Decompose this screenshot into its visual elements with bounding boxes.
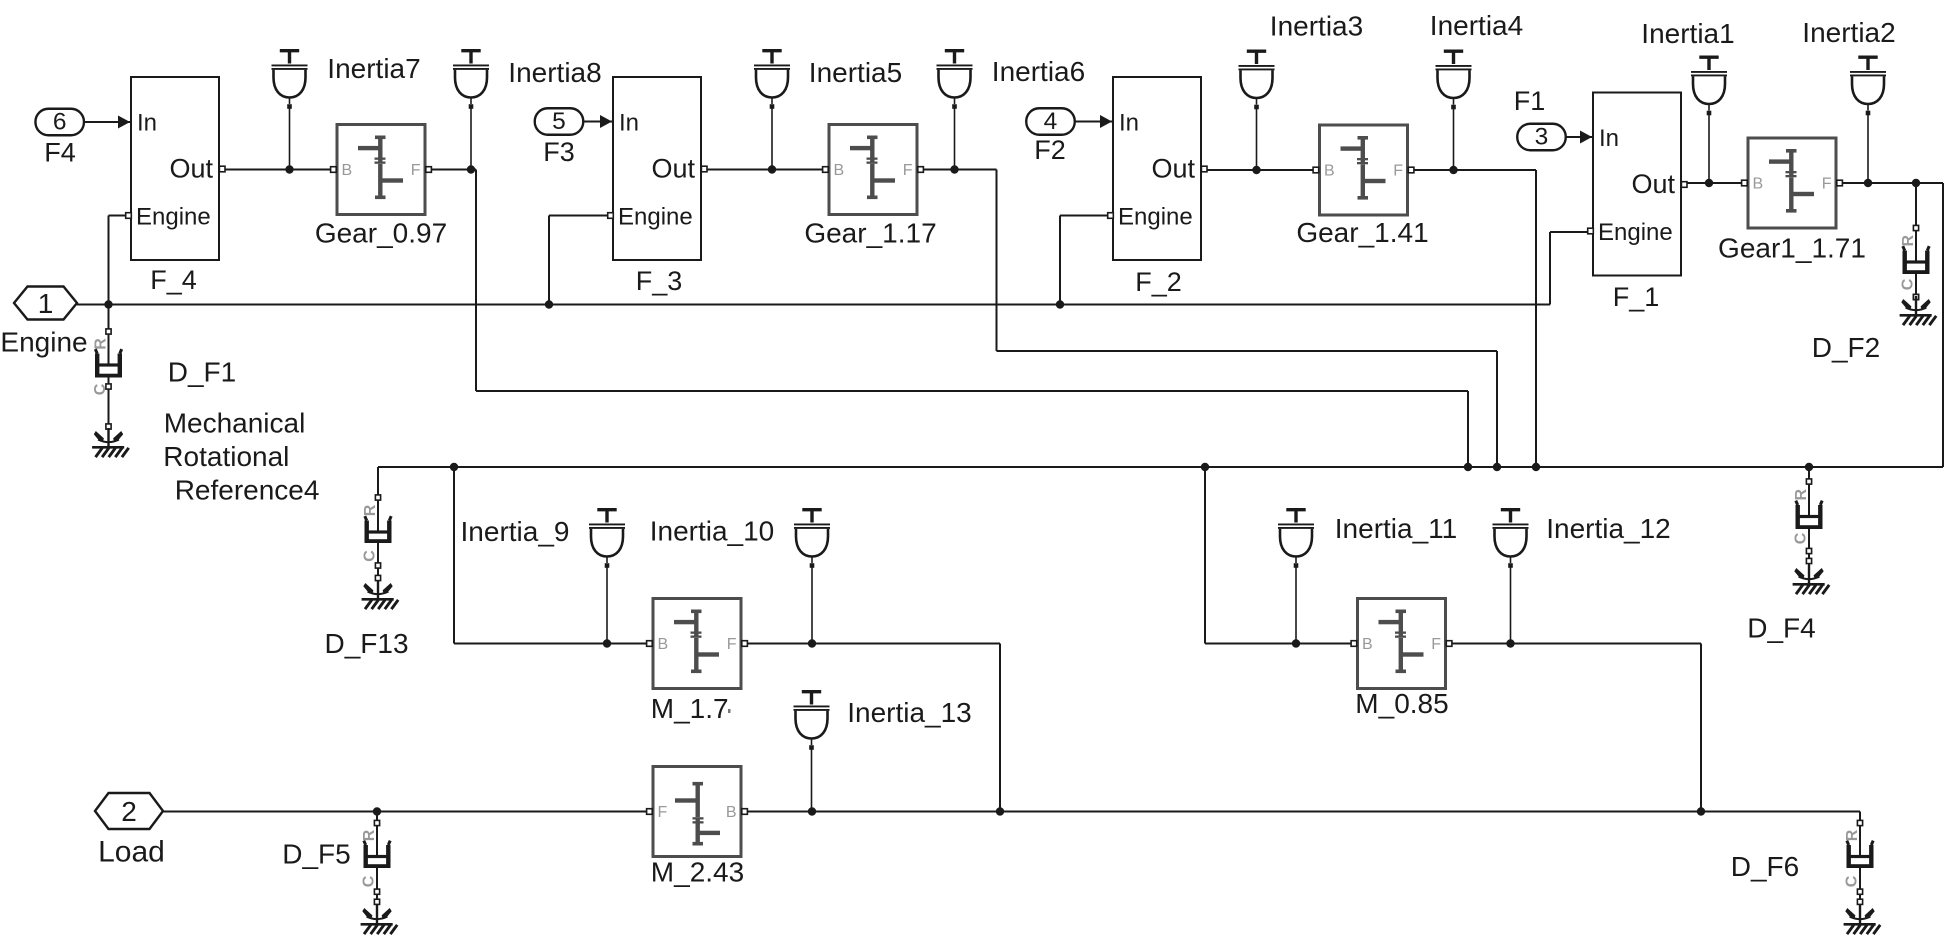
svg-text:B: B: [834, 162, 845, 179]
svg-text:B: B: [726, 804, 737, 821]
svg-text:C: C: [92, 383, 109, 395]
svg-text:Inertia8: Inertia8: [508, 57, 601, 88]
svg-text:R: R: [1900, 235, 1917, 247]
svg-text:Out: Out: [1631, 169, 1675, 199]
svg-text:F_3: F_3: [636, 266, 683, 296]
svg-text:Inertia6: Inertia6: [992, 56, 1085, 87]
svg-text:F: F: [411, 162, 421, 179]
svg-text:D_F2: D_F2: [1812, 332, 1880, 363]
svg-text:Gear1_1.71: Gear1_1.71: [1718, 233, 1866, 264]
svg-text:C: C: [1793, 532, 1810, 544]
svg-text:M_1.7: M_1.7: [651, 693, 729, 724]
svg-text:Inertia2: Inertia2: [1802, 17, 1895, 48]
svg-text:D_F4: D_F4: [1747, 613, 1815, 644]
svg-text:Inertia_12: Inertia_12: [1546, 513, 1671, 544]
svg-text:Gear_0.97: Gear_0.97: [315, 218, 447, 249]
svg-text:Load: Load: [98, 836, 165, 869]
svg-text:Mechanical: Mechanical: [164, 407, 306, 438]
svg-text:F_2: F_2: [1135, 267, 1182, 297]
svg-text:M_0.85: M_0.85: [1355, 688, 1448, 719]
svg-text:F: F: [1822, 176, 1832, 193]
svg-text:B: B: [658, 636, 669, 653]
svg-text:In: In: [1119, 110, 1139, 137]
svg-text:Inertia_13: Inertia_13: [847, 697, 972, 728]
svg-text:Inertia_9: Inertia_9: [461, 516, 570, 547]
svg-text:Engine: Engine: [136, 204, 211, 231]
svg-text:D_F6: D_F6: [1731, 851, 1799, 882]
svg-text:F_1: F_1: [1613, 282, 1660, 312]
svg-text:1: 1: [38, 288, 54, 319]
svg-text:F: F: [727, 636, 737, 653]
svg-text:C: C: [1844, 875, 1861, 887]
svg-text:B: B: [1753, 176, 1764, 193]
svg-text:F: F: [1393, 163, 1403, 180]
svg-text:Engine: Engine: [1598, 219, 1673, 246]
svg-text:Inertia1: Inertia1: [1641, 18, 1734, 49]
svg-text:Inertia4: Inertia4: [1430, 10, 1523, 41]
svg-text:4: 4: [1044, 108, 1058, 135]
svg-text:In: In: [619, 110, 639, 137]
svg-text:R: R: [362, 504, 379, 516]
svg-text:F3: F3: [543, 137, 575, 167]
svg-text:Out: Out: [651, 154, 695, 184]
svg-text:F2: F2: [1034, 135, 1066, 165]
svg-text:Gear_1.17: Gear_1.17: [804, 218, 936, 249]
svg-text:F: F: [1431, 636, 1441, 653]
svg-text:F: F: [903, 162, 913, 179]
svg-text:C: C: [362, 550, 379, 562]
svg-text:C: C: [1900, 278, 1917, 290]
svg-text:R: R: [1793, 489, 1810, 501]
svg-text:B: B: [342, 162, 353, 179]
svg-text:Inertia_10: Inertia_10: [650, 516, 775, 547]
svg-text:F1: F1: [1514, 86, 1546, 116]
svg-text:Engine: Engine: [618, 204, 693, 231]
svg-text:R: R: [93, 338, 110, 350]
svg-text:2: 2: [121, 796, 137, 827]
svg-text:F: F: [658, 804, 668, 821]
svg-text:Engine: Engine: [0, 327, 87, 358]
svg-text:F4: F4: [44, 138, 76, 168]
svg-text:D_F13: D_F13: [324, 628, 408, 659]
svg-text:Rotational: Rotational: [163, 441, 289, 472]
svg-text:Out: Out: [169, 154, 213, 184]
svg-text:D_F1: D_F1: [168, 357, 236, 388]
svg-text:Inertia7: Inertia7: [327, 53, 420, 84]
svg-text:B: B: [1324, 163, 1335, 180]
svg-text:Engine: Engine: [1118, 204, 1193, 231]
svg-text:Inertia5: Inertia5: [809, 57, 902, 88]
svg-text:Gear_1.41: Gear_1.41: [1296, 217, 1428, 248]
svg-text:5: 5: [552, 108, 566, 135]
svg-text:C: C: [361, 875, 378, 887]
svg-text:R: R: [1844, 829, 1861, 841]
svg-text:In: In: [137, 110, 157, 137]
svg-text:R: R: [361, 829, 378, 841]
svg-text:Inertia_11: Inertia_11: [1335, 513, 1457, 544]
svg-text:D_F5: D_F5: [282, 838, 350, 869]
svg-text:Out: Out: [1151, 154, 1195, 184]
svg-text:3: 3: [1535, 123, 1549, 150]
svg-text:B: B: [1362, 636, 1373, 653]
svg-text:In: In: [1599, 125, 1619, 152]
svg-text:Reference4: Reference4: [175, 475, 320, 506]
svg-text:Inertia3: Inertia3: [1270, 11, 1363, 42]
svg-text:F_4: F_4: [150, 265, 197, 295]
svg-text:6: 6: [53, 108, 67, 135]
svg-text:M_2.43: M_2.43: [651, 857, 744, 888]
